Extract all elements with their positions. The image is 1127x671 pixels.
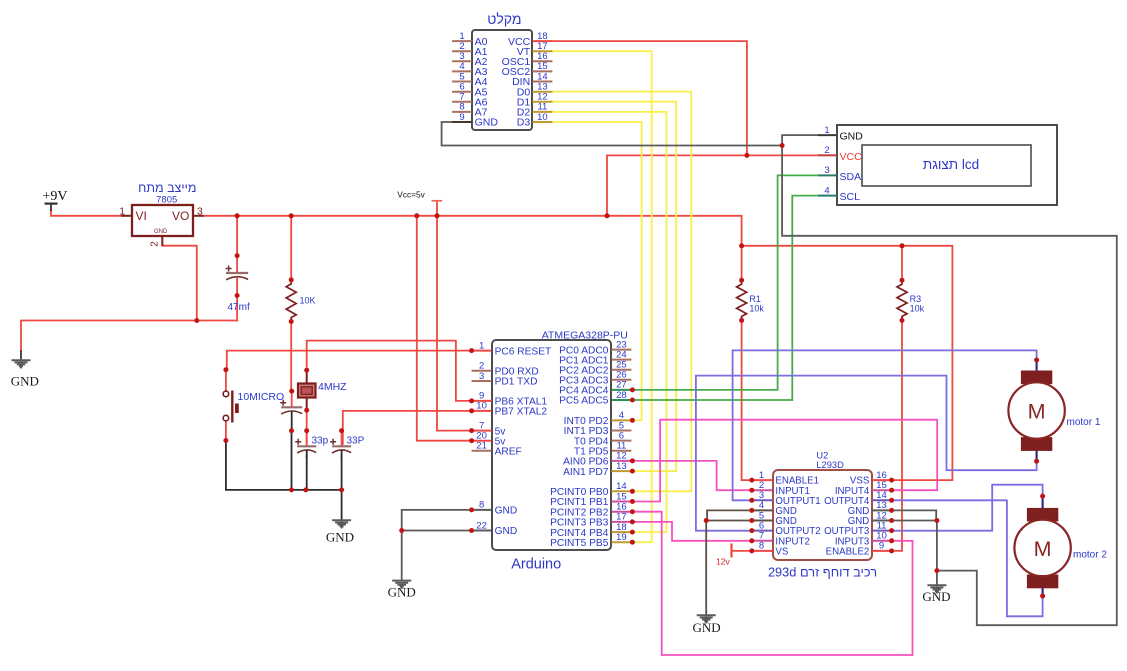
wire 7805 pin2 to GND rail	[162, 246, 197, 321]
wire XTAL2 to C4	[343, 411, 472, 444]
svg-text:9: 9	[879, 541, 884, 552]
svg-text:PD1 TXD: PD1 TXD	[495, 377, 538, 388]
ATmega pin 25 PC2 ADC2	[559, 360, 631, 377]
svg-text:10: 10	[476, 401, 487, 412]
L293D pin 15 INPUT4	[835, 480, 892, 497]
svg-text:33P: 33P	[347, 436, 365, 447]
L293D pin 13 GND	[848, 500, 892, 517]
motor driver U2 L293D	[768, 450, 877, 579]
power symbol 12v	[716, 544, 732, 567]
keypad pin 11 D2	[517, 102, 553, 119]
wire OUTPUT1 to motor1 top	[733, 350, 1037, 500]
ATmega pin 10 PB7 XTAL2	[472, 401, 548, 418]
L293D pin 3 OUTPUT1	[752, 490, 821, 507]
wire OUTPUT3 to motor2 top	[892, 485, 1043, 531]
wire LCD SCL to PC5	[632, 196, 818, 400]
keypad pin 6 A5	[452, 82, 488, 99]
power symbol +9V	[42, 189, 67, 211]
svg-text:GND: GND	[840, 131, 864, 143]
svg-text:13: 13	[616, 461, 627, 472]
wire L293D pin13 GND	[892, 510, 937, 520]
ATmega pin 19 PCINT5 PB5	[550, 532, 631, 549]
svg-text:GND: GND	[495, 506, 518, 517]
wire cap 47mf bottom lead	[236, 296, 238, 321]
keypad pin 17 VT	[517, 41, 553, 58]
svg-text:GND: GND	[475, 117, 499, 129]
svg-text:GND: GND	[693, 620, 721, 635]
wire keypad D2 to PB4	[552, 112, 666, 532]
ATmega pin 16 PCINT2 PB2	[550, 502, 631, 519]
ATmega pin 8 GND	[472, 500, 518, 517]
L293D pin 7 INPUT2	[752, 531, 810, 548]
wire +9V to 7805 VI	[51, 210, 123, 216]
wire L293D pin4 GND	[707, 510, 752, 520]
svg-text:U2: U2	[816, 450, 828, 460]
ground GND (7805)	[11, 360, 39, 388]
L293D pin 8 VS	[752, 541, 789, 558]
ATmega pin 23 PC0 ADC0	[559, 339, 631, 356]
keypad IC U1 (מקלט)	[472, 11, 532, 130]
svg-text:GND: GND	[922, 589, 950, 604]
L293D pin 1 ENABLE1	[752, 470, 819, 487]
LCD pin 2 VCC	[818, 145, 862, 163]
LCD pin 4 SCL	[818, 185, 860, 203]
keypad pin 15 OSC2	[502, 61, 553, 78]
ATmega pin 4 INT0 PD2	[564, 410, 632, 427]
wire C2 bottom lead	[291, 431, 293, 490]
svg-text:47mf: 47mf	[228, 302, 250, 313]
svg-text:28: 28	[616, 390, 627, 401]
svg-text:PCINT5 PB5: PCINT5 PB5	[550, 538, 609, 549]
ATmega pin 14 PCINT0 PB0	[550, 481, 631, 498]
wire L293D pin12 GND	[892, 520, 937, 522]
ATmega pin 26 PC3 ADC3	[559, 370, 631, 387]
wire GND rail left	[21, 321, 237, 352]
terminal dots crystal	[304, 368, 309, 413]
svg-text:GND: GND	[326, 530, 354, 545]
resistor R2 10K	[286, 280, 315, 322]
wire keypad VT to PB5	[552, 51, 651, 542]
ATmega pin 11 T1 PD5	[574, 441, 632, 458]
wire RESET net	[227, 351, 472, 370]
wire 5v pin7 supply	[437, 216, 472, 431]
ATmega pin 17 PCINT3 PB3	[550, 512, 631, 529]
ATmega pin 18 PCINT4 PB4	[550, 522, 631, 539]
svg-text:GND: GND	[11, 374, 39, 389]
terminal dots capacitors	[235, 253, 345, 433]
wire motor GND riser	[936, 521, 938, 586]
keypad pin 13 D0	[517, 82, 553, 99]
L293D pin 4 GND	[752, 500, 797, 517]
L293D pin 6 OUTPUT2	[752, 520, 821, 537]
svg-text:3: 3	[197, 205, 203, 217]
svg-text:D3: D3	[517, 117, 531, 129]
svg-text:GND: GND	[388, 585, 416, 600]
capacitor C2 10micro	[280, 391, 302, 431]
svg-text:1: 1	[479, 340, 484, 351]
keypad pin 10 D3	[517, 112, 553, 129]
svg-text:3: 3	[824, 165, 829, 176]
svg-text:21: 21	[476, 441, 487, 452]
svg-text:L293D: L293D	[816, 460, 844, 470]
keypad pin 14 DIN	[512, 71, 552, 88]
wire OUTPUT2 to motor1 bottom	[696, 376, 1037, 531]
ATmega pin 20 5v	[472, 431, 507, 448]
keypad pin 9 GND	[452, 112, 498, 129]
svg-text:PC5 ADC5: PC5 ADC5	[559, 396, 609, 407]
ATmega pin 21 AREF	[472, 441, 522, 458]
svg-text:VCC: VCC	[840, 151, 863, 163]
wire cap 47mf top lead	[236, 216, 238, 256]
svg-text:motor 1: motor 1	[1067, 417, 1101, 428]
wire 12v to VS	[732, 550, 752, 552]
terminal dots resistors	[289, 277, 905, 324]
svg-text:10MICRO: 10MICRO	[238, 391, 285, 403]
L293D pin 10 INPUT3	[835, 531, 892, 548]
wire button to GND	[226, 441, 342, 521]
wire R1 bottom to ENABLE1	[742, 320, 752, 480]
svg-text:SCL: SCL	[840, 191, 861, 203]
ATmega pin 1 PC6 RESET	[472, 340, 552, 357]
wire keypad VCC riser	[552, 41, 747, 155]
svg-text:SDA: SDA	[840, 171, 862, 183]
ATmega pin 15 PCINT1 PB1	[550, 491, 631, 508]
L293D pin 12 GND	[848, 510, 892, 527]
motor M2 motor 2	[1014, 497, 1107, 598]
wire PB1 to INPUT4	[632, 420, 937, 502]
wire 10K top lead	[290, 216, 292, 280]
svg-text:רכיב דוחף זרם 293d: רכיב דוחף זרם 293d	[768, 565, 877, 580]
ATmega pin 28 PC5 ADC5	[559, 390, 631, 407]
motor terminal dots	[1034, 358, 1045, 599]
keypad pin 2 A1	[452, 41, 488, 58]
power symbol Vcc=5v	[397, 189, 442, 201]
svg-text:2: 2	[150, 241, 161, 247]
wire LCD GND main loop	[782, 135, 1117, 625]
wire 7805 VO 5V rail	[203, 216, 742, 280]
ATmega pin 7 5v	[472, 420, 507, 437]
wire keypad D0 to PB0	[552, 92, 691, 492]
svg-text:+9V: +9V	[42, 189, 67, 204]
ATmega pin 22 GND	[472, 520, 518, 537]
keypad pin 5 A4	[452, 71, 488, 88]
junction dots 5V rail	[235, 153, 905, 248]
capacitor C3 33p	[295, 431, 328, 458]
L293D pin 16 VSS	[850, 470, 892, 487]
svg-text:Arduino: Arduino	[511, 556, 561, 572]
wire PD6 to INPUT1	[632, 461, 751, 490]
svg-text:10K: 10K	[300, 296, 316, 306]
ATmega pin 12 AIN0 PD6	[563, 451, 631, 468]
wire 5V rail to VSS	[742, 246, 953, 480]
L293D pin 5 GND	[752, 510, 797, 527]
svg-text:PC6 RESET: PC6 RESET	[495, 346, 552, 357]
wire VCC to LCD	[607, 155, 837, 215]
svg-text:10k: 10k	[749, 304, 764, 314]
svg-text:AREF: AREF	[495, 447, 522, 458]
svg-text:1: 1	[824, 125, 829, 136]
svg-text:VO: VO	[172, 209, 189, 223]
LCD display module	[837, 125, 1057, 205]
keypad pin 12 D1	[517, 92, 553, 109]
keypad pin 18 VCC	[508, 31, 552, 48]
ground GND (oscillator)	[326, 520, 354, 544]
ATmega pin 13 AIN1 PD7	[563, 461, 631, 478]
svg-text:GND: GND	[495, 526, 518, 537]
svg-text:PB7 XTAL2: PB7 XTAL2	[495, 407, 548, 418]
ATmega pin 24 PC1 ADC1	[559, 349, 631, 366]
wire R3 top lead	[901, 246, 903, 280]
keypad pin 8 A7	[452, 102, 488, 119]
keypad pin 3 A2	[452, 51, 488, 68]
svg-text:12v: 12v	[716, 557, 730, 567]
wire ATmega pin22 GND	[402, 531, 472, 581]
wire PB2 to INPUT3	[632, 512, 912, 655]
wire Vcc symbol stem	[436, 201, 438, 216]
svg-text:ATMEGA328P-PU: ATMEGA328P-PU	[542, 329, 628, 341]
svg-text:4: 4	[824, 185, 829, 196]
ATmega pin 9 PB6 XTAL1	[472, 391, 548, 408]
wire switch top lead	[225, 370, 227, 391]
ATmega pin 5 INT1 PD3	[564, 420, 632, 437]
wire L293D pin5 GND	[706, 521, 752, 616]
ATmega pin 27 PC4 ADC4	[559, 380, 631, 397]
keypad pin 1 A0	[452, 31, 488, 48]
ATmega pin 3 PD1 TXD	[472, 371, 538, 388]
ATmega pin 6 T0 PD4	[574, 430, 632, 447]
keypad pin 7 A6	[452, 92, 488, 109]
svg-text:R1: R1	[749, 294, 761, 304]
svg-text:VI: VI	[136, 209, 147, 223]
LCD pin 3 SDA	[818, 165, 861, 183]
L293D pin 9 ENABLE2	[826, 541, 892, 558]
svg-text:4MHZ: 4MHZ	[318, 381, 347, 393]
svg-text:10: 10	[537, 112, 548, 123]
svg-text:VS: VS	[775, 547, 788, 558]
svg-text:מייצב מתח: מייצב מתח	[138, 181, 196, 195]
gray net junction dots	[704, 143, 940, 573]
svg-text:M: M	[1034, 537, 1052, 561]
pushbutton S1 10MICRO	[223, 391, 284, 423]
svg-text:19: 19	[616, 532, 627, 543]
ground GND (motors)	[922, 585, 950, 604]
ATmega pin dots	[469, 348, 635, 545]
ground GND (ATmega)	[388, 581, 416, 600]
svg-text:2: 2	[824, 145, 829, 156]
svg-text:8: 8	[479, 500, 484, 511]
L293D pin 11 OUTPUT3	[824, 520, 892, 537]
keypad pin 4 A3	[452, 61, 488, 78]
motor M1 motor 1	[1008, 360, 1100, 461]
L293D pin 2 INPUT1	[752, 480, 810, 497]
svg-text:תצוגת lcd: תצוגת lcd	[923, 157, 979, 172]
wire LCD SDA to PC4	[632, 175, 818, 390]
svg-text:9: 9	[459, 112, 464, 123]
capacitor C1 47mf	[226, 256, 250, 313]
wire 10K bottom to C2	[290, 322, 292, 392]
ground GND (L293D)	[693, 615, 721, 635]
wire C4 bottom lead	[341, 456, 343, 490]
wire OUTPUT4 to motor2 bottom	[892, 500, 1043, 616]
regulator U3 7805	[119, 181, 203, 247]
svg-text:Vcc=5v: Vcc=5v	[397, 189, 425, 199]
svg-text:motor 2: motor 2	[1073, 550, 1107, 561]
svg-text:22: 22	[476, 520, 487, 531]
svg-text:מקלט: מקלט	[487, 11, 521, 27]
svg-text:33p: 33p	[312, 436, 329, 447]
L293D pin 14 OUTPUT4	[824, 490, 892, 507]
LCD pin 1 GND	[818, 125, 863, 143]
svg-text:7805: 7805	[156, 194, 177, 205]
wire keypad GND loop	[442, 122, 782, 146]
svg-text:1: 1	[119, 205, 125, 217]
svg-text:10k: 10k	[910, 304, 925, 314]
wire crystal bottom to C3	[306, 410, 308, 444]
wire 5v pin20 supply	[417, 216, 472, 441]
junction dots ground left	[194, 318, 404, 533]
wire C3 bottom lead	[306, 456, 308, 490]
wire GND stem	[20, 351, 22, 360]
svg-text:3: 3	[479, 371, 484, 382]
resistor R3 10k	[897, 280, 925, 320]
L293D pin dots	[749, 478, 894, 554]
wire PB3 to INPUT2	[632, 522, 751, 541]
svg-text:ENABLE2: ENABLE2	[826, 547, 870, 558]
svg-text:R3: R3	[910, 294, 922, 304]
capacitor C4 33P	[330, 431, 365, 458]
svg-text:M: M	[1028, 400, 1046, 424]
crystal Y1 4MHZ	[298, 370, 347, 410]
wire R3 bottom to ENABLE2	[892, 320, 902, 551]
svg-text:8: 8	[759, 541, 764, 552]
wire ATmega pin8 GND	[402, 510, 472, 531]
wire switch bottom lead	[225, 421, 227, 441]
keypad pin 16 OSC1	[502, 51, 553, 68]
wire crystal to XTAL1	[307, 341, 472, 401]
microcontroller U4 ATMEGA328P-PU (Arduino)	[492, 329, 628, 572]
svg-text:AIN1 PD7: AIN1 PD7	[563, 467, 609, 478]
ATmega pin 2 PD0 RXD	[472, 361, 539, 378]
wire keypad D1 to PD7	[552, 102, 676, 471]
wire keypad D3 to PD2	[552, 122, 641, 420]
resistor R1 10k	[737, 280, 765, 320]
svg-text:GND: GND	[154, 229, 168, 235]
